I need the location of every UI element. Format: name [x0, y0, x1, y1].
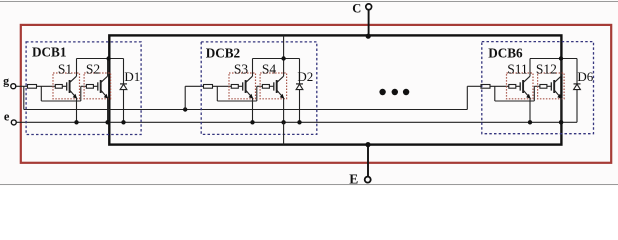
wire gate branch drop DCB2	[216, 86, 218, 101]
emitter stroke S11	[523, 90, 530, 98]
wire D1 cathode	[123, 59, 125, 84]
junction D1 anode on e-rail	[121, 120, 125, 124]
ellipsis continuation dots	[379, 89, 409, 95]
gate bar S1	[66, 82, 68, 90]
chip outline S1	[53, 73, 80, 99]
diode D6	[574, 84, 581, 90]
emitter stroke S3	[246, 90, 253, 98]
wire emitter S4 to bottom bus	[283, 122, 285, 144]
wire D6 cathode	[576, 59, 578, 84]
wire emitter S2	[107, 98, 109, 122]
junction D2 anode on e-rail	[297, 120, 301, 124]
wire Rg to gate S12	[547, 85, 551, 87]
wire g terminal to DCB1	[16, 85, 28, 87]
emitter stroke S4	[277, 90, 284, 98]
wire emitter S4	[283, 98, 285, 122]
wire Rg to gate S11	[516, 85, 520, 87]
resistor Rg S3	[231, 85, 238, 89]
collector stroke S4	[277, 76, 284, 82]
label S4	[262, 61, 277, 76]
label S2	[86, 61, 100, 76]
label D2	[297, 69, 313, 84]
collector stroke S3	[246, 76, 253, 82]
wire collector header DCB2	[253, 58, 300, 60]
chip outline S3	[229, 73, 256, 99]
label D1	[124, 69, 140, 84]
transistor S1 body	[69, 80, 71, 93]
junction C on top bus	[366, 34, 371, 39]
chip outline S4	[260, 73, 287, 99]
transistor S4 body	[276, 80, 278, 93]
svg-text:S4: S4	[262, 61, 277, 76]
svg-text:DCB1: DCB1	[32, 44, 66, 59]
svg-text:DCB6: DCB6	[488, 46, 523, 61]
label g	[3, 74, 9, 88]
main bus rectangle (C top / E bottom)	[109, 35, 561, 144]
wire collector S1	[76, 59, 78, 77]
wire collector S4	[283, 59, 285, 77]
svg-text:S2: S2	[86, 61, 100, 76]
svg-text:S3: S3	[234, 61, 249, 76]
resistor Rg S12	[540, 85, 547, 89]
label S3	[234, 61, 249, 76]
wire gate branch drop DCB1	[40, 86, 42, 101]
collector stroke S2	[101, 76, 108, 82]
transistor S11 body	[522, 80, 524, 93]
gate bar S2	[97, 82, 99, 90]
junction e-rail / bus right edge	[559, 120, 563, 124]
wire E terminal to bottom bus	[367, 145, 369, 177]
wire gate branch riser DCB1	[80, 86, 82, 101]
svg-text:S11: S11	[507, 61, 528, 76]
label E	[349, 172, 358, 187]
collector stroke S11	[523, 76, 530, 82]
gate bar S12	[550, 82, 552, 90]
svg-text:D2: D2	[297, 69, 313, 84]
emitter stroke S12	[555, 90, 562, 98]
resistor module gate DCB1	[28, 85, 37, 89]
wire D6 anode	[576, 90, 578, 123]
wire collector S11	[529, 59, 531, 77]
gate bar S3	[242, 82, 244, 90]
wire Rg to gate S2	[93, 85, 97, 87]
label S11	[507, 61, 528, 76]
wire gate branch riser DCB2	[256, 86, 258, 101]
svg-text:DCB2: DCB2	[206, 45, 241, 60]
wire collector riser to top bus S4	[283, 35, 285, 58]
wire module R to S3 Rg	[213, 85, 232, 87]
DCB6 substrate box	[482, 42, 594, 134]
diode D2	[296, 84, 303, 90]
resistor Rg S11	[509, 85, 516, 89]
wire Rg to gate S1	[62, 85, 66, 87]
wire gate bus drop from g	[23, 86, 25, 109]
wire module R to S1 Rg	[37, 85, 56, 87]
svg-text:D6: D6	[577, 69, 593, 84]
label D6	[577, 69, 593, 84]
wire branch to S2 Rg	[81, 85, 87, 87]
wire branch to S4 Rg	[257, 85, 263, 87]
DCB2 substrate box	[201, 42, 317, 134]
label e	[4, 110, 10, 124]
wire gate feed DCB2	[185, 85, 203, 87]
transistor S2 body	[100, 80, 102, 93]
terminal e circle	[11, 120, 16, 125]
label S12	[536, 61, 557, 76]
wire collector header DCB6	[530, 58, 577, 60]
label DCB2	[206, 45, 241, 60]
wire emitter S1	[76, 98, 78, 122]
wire collector S3	[252, 59, 254, 77]
junction emitter S1 on e-rail	[74, 120, 78, 124]
wire D2 anode	[299, 90, 301, 123]
terminal C circle	[366, 4, 372, 10]
module housing outline (red)	[21, 25, 611, 163]
label C	[352, 1, 361, 15]
svg-text:g: g	[3, 74, 9, 88]
wire gate branch DCB2	[217, 100, 256, 102]
svg-text:e: e	[4, 110, 10, 124]
wire D2 cathode	[299, 59, 301, 84]
wire gate feed DCB6	[467, 85, 481, 87]
junction gate bus / DCB2 riser	[183, 107, 187, 111]
wire C terminal to top bus	[368, 10, 370, 36]
wire emitter S12	[560, 98, 562, 122]
junction emitter S11 on e-rail	[528, 120, 532, 124]
wire module R to S11 Rg	[490, 85, 509, 87]
chip outline S2	[84, 73, 111, 99]
svg-text:S1: S1	[58, 61, 72, 76]
wire Rg to gate S3	[238, 85, 242, 87]
collector stroke S12	[555, 76, 562, 82]
junction emitter S12 on e-rail	[559, 120, 563, 124]
resistor Rg S2	[86, 85, 93, 89]
label S1	[58, 61, 72, 76]
transistor S12 body	[553, 80, 555, 93]
wire gate branch drop DCB6	[494, 86, 496, 101]
terminal E circle	[365, 177, 371, 183]
wire e-rail extension to D6	[561, 121, 577, 123]
resistor Rg S1	[55, 85, 62, 89]
junction emitter S2 on e-rail	[105, 120, 109, 124]
label DCB6	[488, 46, 523, 61]
junction collector header DCB1	[106, 56, 110, 60]
diode D1	[120, 84, 127, 90]
wire collector S12	[560, 59, 562, 77]
wire gate riser DCB2	[184, 86, 186, 109]
wire gate branch DCB1	[41, 100, 81, 102]
terminal g circle	[11, 84, 16, 89]
transistor S3 body	[245, 80, 247, 93]
wire emitter S3	[252, 98, 254, 122]
wire collector S2	[107, 59, 109, 77]
label DCB1	[32, 44, 66, 59]
collector stroke S1	[70, 76, 77, 82]
svg-text:C: C	[352, 1, 361, 15]
wire gate branch DCB6	[495, 100, 535, 102]
chip outline S12	[538, 73, 565, 99]
junction emitter S4 on e-rail	[281, 120, 285, 124]
junction emitter S3 on e-rail	[250, 120, 254, 124]
wire gate riser DCB6	[466, 86, 468, 109]
chip outline S11	[507, 73, 534, 99]
wire Rg to gate S4	[269, 85, 273, 87]
junction collector header DCB2	[281, 56, 285, 60]
svg-text:S12: S12	[536, 61, 557, 76]
wire branch to S12 Rg	[534, 85, 540, 87]
resistor Rg S4	[262, 85, 269, 89]
wire gate bus rail	[24, 109, 468, 111]
wire auxiliary emitter rail	[16, 121, 561, 123]
wire gate branch riser DCB6	[533, 86, 535, 101]
DCB1 substrate box	[26, 42, 141, 135]
svg-text:D1: D1	[124, 69, 140, 84]
wire D1 anode	[123, 90, 125, 123]
svg-text:E: E	[349, 172, 358, 186]
gate bar S11	[519, 82, 521, 90]
junction collector header DCB6	[559, 56, 563, 60]
junction E on bottom bus	[365, 142, 370, 147]
gate bar S4	[273, 82, 275, 90]
wire emitter S11	[529, 98, 531, 122]
resistor module gate DCB6	[481, 85, 490, 89]
emitter stroke S1	[70, 90, 77, 98]
resistor module gate DCB2	[204, 85, 213, 89]
emitter stroke S2	[101, 90, 108, 98]
wire collector header DCB1	[77, 58, 124, 60]
